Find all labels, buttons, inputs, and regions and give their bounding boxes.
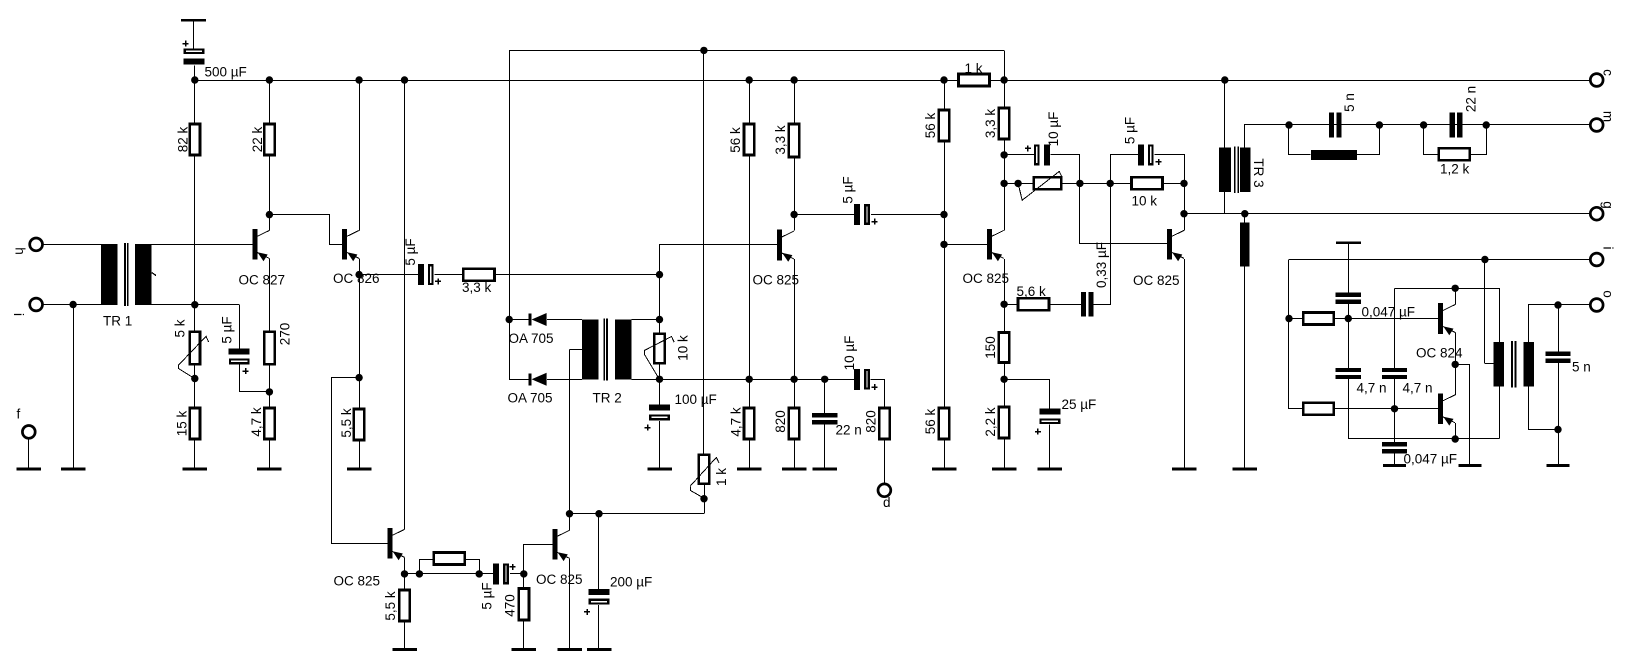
wire coupling down to 4,7n (crosses base wire) bbox=[1394, 288, 1396, 368]
wire secondary bottom bbox=[1529, 387, 1559, 430]
junction secondary top / 10k pot bbox=[656, 316, 663, 323]
ground under 25 uF bbox=[1038, 468, 1063, 471]
svg-text:0,047 µF: 0,047 µF bbox=[1362, 305, 1416, 320]
capacitor 22 n filter bbox=[1450, 113, 1463, 138]
wire 4,7k to ground bbox=[269, 439, 271, 468]
junction stage3 out bbox=[1076, 180, 1083, 187]
junction bus / OC825 emitter / 820 bbox=[790, 376, 797, 383]
svg-text:15 k: 15 k bbox=[175, 410, 190, 436]
wire 10k to collector column bbox=[1163, 183, 1185, 185]
wire 5,5k to ground bbox=[359, 440, 361, 468]
potentiometer feedback body bbox=[1034, 177, 1062, 189]
wire collector to 5uF bbox=[794, 214, 854, 216]
wire left column to lower resistor bbox=[1289, 408, 1303, 410]
resistor 82 k bbox=[190, 124, 200, 155]
junction left column / upper resistor bbox=[1285, 315, 1292, 322]
wire tap to extension winding bbox=[1244, 214, 1246, 223]
wire bottom OC825 collector to rail bbox=[404, 80, 406, 529]
wire to filter inductor bbox=[1289, 125, 1311, 155]
svg-text:d: d bbox=[883, 495, 891, 510]
junction rail / 22k bbox=[266, 76, 273, 83]
resistor 15 k bbox=[190, 408, 200, 439]
svg-text:4,7 n: 4,7 n bbox=[1357, 381, 1387, 396]
junction filter 4 bbox=[1483, 121, 1490, 128]
junction driver node bbox=[656, 271, 663, 278]
wire 3,3k to driver node bbox=[495, 274, 660, 276]
resistor 56 k first bbox=[744, 124, 754, 155]
wire to 5,5k bbox=[359, 378, 361, 409]
svg-text:820: 820 bbox=[773, 410, 788, 433]
svg-text:OC 827: OC 827 bbox=[239, 273, 286, 288]
wire terminal i line bbox=[1289, 259, 1590, 261]
wire 10k wiper to bottom bbox=[645, 351, 660, 380]
chassis bar at 500 uF bbox=[181, 19, 206, 22]
potentiometer 1 k wiper bbox=[690, 457, 719, 486]
svg-text:1 k: 1 k bbox=[965, 61, 983, 76]
ground under 4,7 k driver bbox=[737, 468, 762, 471]
junction collector / feedback line bbox=[566, 510, 573, 517]
wire collector column bbox=[1184, 183, 1186, 230]
ground under TR3 bbox=[1233, 468, 1258, 471]
svg-text:200 µF: 200 µF bbox=[610, 575, 652, 590]
resistor 56 k third bbox=[939, 408, 949, 439]
svg-text:5,5 k: 5,5 k bbox=[383, 591, 398, 621]
wire 0,33uF to node2 bbox=[1094, 184, 1111, 305]
resistor 470 bbox=[519, 589, 529, 621]
wire 5k wiper to bottom node bbox=[179, 365, 195, 379]
ground under 100 uF bbox=[647, 468, 672, 471]
capacitor 5 uF electrolytic fourth bbox=[1138, 144, 1153, 165]
svg-text:0,33 µF: 0,33 µF bbox=[1094, 242, 1109, 288]
ground under 5,5 k bbox=[347, 468, 372, 471]
terminal i bbox=[1590, 253, 1603, 266]
wire emitter column bbox=[359, 275, 361, 378]
wire to 5,5k bottom bbox=[404, 574, 406, 590]
wire chassis to C 500uF bbox=[193, 22, 195, 50]
wire node to 15k bbox=[194, 379, 196, 409]
wire collector node to OC826 base bbox=[270, 215, 343, 245]
svg-text:82 k: 82 k bbox=[176, 126, 191, 152]
wire node A down to 4,7n bbox=[1348, 319, 1350, 369]
junction upper collector bbox=[1452, 285, 1459, 292]
junction collector / 10uF bbox=[1000, 151, 1007, 158]
resistor bypass unlabeled bbox=[434, 553, 465, 565]
svg-text:c: c bbox=[1601, 69, 1616, 76]
ground under 2,2 k bbox=[992, 468, 1017, 471]
wire OC826 emitter down bbox=[359, 258, 361, 274]
transistor OC 824 upper bbox=[1438, 303, 1455, 335]
wire OC825 emitter down bbox=[1004, 259, 1006, 304]
junction OC827 collector / 22k bbox=[266, 211, 273, 218]
wire node A to upper OC824 base bbox=[1348, 318, 1438, 320]
capacitor 0,047 uF lower bbox=[1382, 442, 1407, 453]
wire OC826 collector to rail bbox=[359, 80, 361, 230]
wire OC825 fourth emitter to ground bbox=[1184, 259, 1186, 468]
wire secondary top to o line bbox=[1529, 305, 1559, 343]
svg-text:5 k: 5 k bbox=[173, 319, 188, 337]
junction TR3 tap bbox=[1241, 210, 1248, 217]
wire left column to upper resistor bbox=[1289, 318, 1303, 320]
capacitor 4,7 n right bbox=[1382, 368, 1407, 379]
junction bypass left bbox=[416, 570, 423, 577]
wire rail to TR3 primary bbox=[1224, 80, 1226, 148]
wire rail to 82k bbox=[194, 80, 196, 124]
wire node to ground bbox=[1558, 430, 1560, 465]
svg-text:TR 1: TR 1 bbox=[103, 314, 132, 329]
capacitor 5 uF electrolytic bottom bbox=[493, 563, 508, 584]
junction diode column / upper diode bbox=[506, 316, 513, 323]
junction rail / 3,3k bbox=[790, 76, 797, 83]
wire emitter bus bbox=[660, 379, 855, 381]
wire 5,6k to 0,33uF bbox=[1049, 304, 1081, 306]
svg-text:56 k: 56 k bbox=[923, 408, 938, 434]
resistor oscillator lower bbox=[1303, 403, 1334, 415]
terminal m bbox=[1590, 119, 1603, 132]
wire pot to node bbox=[194, 364, 196, 378]
wire 200uF to ground bbox=[598, 605, 600, 648]
wire 3,3k to collector bbox=[1004, 139, 1006, 230]
svg-text:i: i bbox=[11, 313, 26, 316]
wire 56k to divider node bbox=[944, 141, 946, 215]
resistor 820 right bbox=[879, 408, 889, 439]
svg-text:3,3 k: 3,3 k bbox=[983, 109, 998, 139]
junction pot wiper bbox=[1014, 180, 1021, 187]
ground under 820 left bbox=[782, 468, 807, 471]
wire 10uF to node bbox=[1051, 155, 1080, 184]
capacitor 200 uF electrolytic bbox=[589, 589, 610, 604]
wire upper collector up bbox=[1455, 288, 1457, 304]
svg-text:0,047 µF: 0,047 µF bbox=[1404, 452, 1458, 467]
resistor 10 k fourth bbox=[1132, 177, 1163, 189]
svg-text:5 µF: 5 µF bbox=[403, 238, 418, 265]
wire upper emitter down bbox=[1455, 333, 1457, 365]
svg-text:5 µF: 5 µF bbox=[480, 582, 495, 609]
wire upper collector to primary top bbox=[1456, 289, 1500, 343]
junction 1k pot bottom bbox=[700, 495, 707, 502]
transformer oscillator output bbox=[1494, 341, 1535, 387]
wire diode column bbox=[509, 50, 511, 379]
wire 820 to ground bbox=[794, 439, 796, 468]
junction rail / 500uF bbox=[191, 76, 198, 83]
junction rail / 56k second bbox=[940, 76, 947, 83]
wire filter line to terminal m bbox=[1289, 124, 1590, 126]
capacitor 5 uF electrolytic left bbox=[229, 349, 250, 364]
wire 25uF to ground bbox=[1049, 425, 1051, 468]
svg-text:25 µF: 25 µF bbox=[1062, 397, 1097, 412]
wire 5uF to 3,3k bbox=[435, 274, 464, 276]
wire 4,7n to lower base node bbox=[1394, 379, 1396, 409]
wire to 200uF bbox=[598, 514, 600, 589]
wire 5,5k to ground bbox=[404, 621, 406, 648]
wire to OC825 base bbox=[944, 244, 987, 246]
ground under i wire bbox=[61, 468, 86, 471]
svg-text:o: o bbox=[1601, 290, 1616, 298]
wire pot column vertical bbox=[703, 50, 705, 454]
ground under 5n bbox=[1547, 464, 1570, 467]
wire 4,7n to bottom rail bbox=[1348, 379, 1350, 439]
resistor 3,3 k driver bbox=[789, 124, 799, 157]
svg-text:m: m bbox=[1601, 111, 1616, 122]
wire 56k to ground bbox=[944, 439, 946, 468]
resistor 5,5 k bottom bbox=[399, 590, 409, 621]
junction bus / 22n bbox=[821, 376, 828, 383]
junction emitter / 5,5k / branch bbox=[355, 374, 362, 381]
wire cross coupling upper bbox=[1395, 288, 1456, 290]
svg-text:OC 825: OC 825 bbox=[334, 574, 381, 589]
terminal o bbox=[1590, 299, 1603, 312]
wire f to ground bbox=[28, 438, 30, 468]
wire TR2 center tap bbox=[570, 349, 583, 351]
junction lower emitter / rail bbox=[1452, 435, 1459, 442]
svg-text:OC 825: OC 825 bbox=[1133, 273, 1180, 288]
wire OC827 collector up bbox=[269, 215, 271, 231]
svg-text:22 n: 22 n bbox=[836, 423, 862, 438]
potentiometer 10 k body bbox=[654, 334, 664, 364]
wire to ground bbox=[73, 305, 75, 468]
junction base feed bbox=[940, 241, 947, 248]
capacitor 4,7 n left bbox=[1336, 368, 1361, 379]
potentiometer 10 k wiper bbox=[644, 337, 674, 351]
svg-text:500 µF: 500 µF bbox=[205, 65, 247, 80]
wire 22k to collector node bbox=[269, 155, 271, 215]
wire center tap bbox=[1485, 363, 1494, 365]
resistor 5,6 k bbox=[1018, 298, 1049, 310]
junction i wire / ground drop bbox=[69, 301, 76, 308]
wire to fourth base (crosses column) bbox=[1080, 243, 1167, 245]
wire 270 to node bbox=[269, 364, 271, 392]
wire 1,2k to line bbox=[1470, 125, 1487, 155]
capacitor 0,33 uF bbox=[1081, 292, 1094, 317]
wire 5uF to 56k node bbox=[871, 214, 944, 216]
transformer TR 1 bbox=[101, 243, 151, 306]
wire h to TR1 bbox=[43, 244, 101, 246]
wire output line to terminal g bbox=[1184, 213, 1590, 215]
wire feedback top loop bbox=[509, 50, 1004, 52]
wire rail to 22k bbox=[269, 80, 271, 124]
wire filter inductor to line bbox=[1357, 125, 1380, 155]
wire lower collector up bbox=[1455, 364, 1457, 394]
junction collector feedback bbox=[1180, 180, 1187, 187]
wire TR3 secondary top to filter bbox=[1245, 125, 1289, 148]
wire to terminal o bbox=[1558, 304, 1590, 306]
wire TR3 primary bottom to output line bbox=[1224, 192, 1226, 214]
wire down to 56k third bbox=[944, 244, 946, 408]
wire 5uF to collector column bbox=[1155, 155, 1185, 184]
wire 470 to ground bbox=[523, 620, 525, 648]
wire to 5uF top bbox=[195, 304, 239, 306]
wire to 100uF bbox=[659, 379, 661, 404]
wire 1k wiper to bottom node bbox=[691, 487, 705, 499]
wire 5uF bottom bbox=[239, 365, 241, 392]
transformer TR 2 bbox=[582, 319, 632, 381]
svg-text:820: 820 bbox=[864, 410, 879, 433]
junction rail / lower OC825 collector bbox=[401, 76, 408, 83]
wire rail node to 3,3k bbox=[1004, 80, 1006, 108]
wire C 500uF to rail bbox=[194, 66, 196, 81]
wire node down to OC825 fourth base bbox=[1079, 183, 1081, 244]
svg-text:5,6 k: 5,6 k bbox=[1017, 284, 1047, 299]
capacitor 5 uF electrolytic interstage bbox=[854, 204, 869, 225]
svg-text:4,7 n: 4,7 n bbox=[1403, 381, 1433, 396]
wire OC827 emitter to 270 bbox=[269, 258, 271, 331]
wire to upper diode bbox=[509, 319, 528, 321]
junction node2 bbox=[1107, 180, 1114, 187]
wire 56k down (crosses base wire) bbox=[749, 155, 751, 379]
svg-text:OA 705: OA 705 bbox=[509, 331, 554, 346]
resistor 1,2 k bbox=[1439, 148, 1470, 160]
svg-text:f: f bbox=[17, 407, 21, 422]
junction filter 1 bbox=[1285, 121, 1292, 128]
junction rail / 1k output node bbox=[1000, 76, 1007, 83]
transistor OC 825 bottom right bbox=[553, 529, 570, 561]
wire TR1 bottom to divider bbox=[151, 304, 194, 306]
svg-text:1,2 k: 1,2 k bbox=[1440, 162, 1470, 177]
resistor 820 left bbox=[789, 408, 799, 439]
junction top loop / pot column bbox=[700, 47, 707, 54]
inductor filter choke bbox=[1311, 150, 1357, 160]
junction filter 3 bbox=[1420, 121, 1427, 128]
wire divider node down bbox=[944, 215, 946, 245]
wire driver node down to pot bbox=[659, 275, 661, 320]
wire upper diode to TR2 bbox=[547, 319, 582, 321]
wire 22n to ground bbox=[824, 425, 826, 468]
wire 2,2k to ground bbox=[1004, 438, 1006, 468]
wire emitter to 150 bbox=[1004, 304, 1006, 332]
svg-text:4,7 k: 4,7 k bbox=[249, 407, 264, 437]
junction emitter / coupling bbox=[355, 271, 362, 278]
wire 100uF to ground bbox=[659, 421, 661, 468]
svg-text:56 k: 56 k bbox=[923, 112, 938, 138]
wire collector to pot bbox=[1004, 183, 1034, 185]
potentiometer feedback wiper bbox=[1018, 171, 1062, 200]
svg-text:5 n: 5 n bbox=[1342, 93, 1357, 112]
svg-text:10 µF: 10 µF bbox=[1046, 112, 1061, 147]
wire to bypass resistor bbox=[420, 560, 434, 574]
wire center tap down to output stage bbox=[569, 350, 571, 514]
wire 82k down to pot (crosses base wire) bbox=[194, 155, 196, 332]
capacitor 10 uF electrolytic feedback bbox=[1035, 144, 1050, 165]
wire o line to 5n bbox=[1558, 305, 1560, 352]
svg-text:5 µF: 5 µF bbox=[1123, 117, 1138, 144]
svg-text:i: i bbox=[1601, 247, 1616, 250]
ground under 5,5 k bottom bbox=[392, 648, 417, 651]
resistor 5,5 k bbox=[354, 409, 364, 440]
wire to 470 bbox=[523, 574, 525, 589]
wire lower emitter to rail bbox=[1455, 423, 1457, 439]
wire top loop to rail node bbox=[1004, 50, 1006, 80]
wire collector up bbox=[569, 514, 571, 531]
junction lower base node bbox=[1391, 405, 1398, 412]
wire down to 25uF bbox=[1049, 379, 1051, 408]
junction secondary bottom / pot bottom bbox=[656, 376, 663, 383]
terminal c bbox=[1590, 74, 1603, 87]
svg-text:OC 825: OC 825 bbox=[536, 572, 583, 587]
wire 150 to 2,2k bbox=[1004, 363, 1006, 408]
wire node to 4,7k bbox=[269, 392, 271, 408]
junction collector / pot bbox=[1000, 180, 1007, 187]
capacitor 500 uF electrolytic bbox=[184, 50, 205, 65]
inductor TR3 extension winding bbox=[1240, 222, 1250, 266]
terminal h bbox=[30, 238, 43, 251]
wire feedback line bbox=[570, 513, 705, 515]
junction i line / output transformer tap bbox=[1481, 256, 1488, 263]
svg-text:470: 470 bbox=[503, 594, 518, 617]
svg-text:h: h bbox=[13, 247, 28, 255]
ground under 200 uF bbox=[587, 648, 612, 651]
wire bus to 820 bbox=[794, 379, 796, 408]
resistor 3,3 k third bbox=[999, 108, 1009, 139]
capacitor 10 uF electrolytic to d bbox=[854, 369, 869, 390]
junction divider / TR1 bottom bbox=[191, 301, 198, 308]
wire 0,047uF to node A bbox=[1348, 304, 1350, 319]
svg-text:2,2 k: 2,2 k bbox=[983, 407, 998, 437]
svg-text:150: 150 bbox=[983, 336, 998, 359]
wire 5uF to base node bbox=[510, 573, 524, 575]
wire bus to 4,7k bbox=[749, 379, 751, 408]
wire TR2 secondary top bbox=[632, 319, 660, 321]
wire oscillator left column bbox=[1288, 260, 1290, 409]
ground under 0,047 uF bbox=[1383, 464, 1406, 467]
diode OA 705 lower bbox=[528, 373, 546, 386]
svg-text:270: 270 bbox=[278, 323, 293, 346]
svg-text:1 k: 1 k bbox=[714, 468, 729, 486]
wire TR1 to OC827 base bbox=[151, 244, 252, 246]
svg-text:22 n: 22 n bbox=[1464, 86, 1479, 112]
resistor 150 bbox=[999, 333, 1009, 363]
svg-text:10 k: 10 k bbox=[676, 335, 691, 361]
wire pot bottom bbox=[659, 363, 661, 379]
resistor 270 bbox=[264, 332, 274, 365]
resistor 3,3 k coupling bbox=[463, 269, 494, 281]
wire 3,3k to collector bbox=[794, 157, 796, 230]
transistor OC 825 third bbox=[987, 229, 1004, 261]
capacitor 25 uF electrolytic bbox=[1039, 409, 1060, 424]
capacitor 5 n output bbox=[1545, 352, 1570, 363]
junction 5k / 15k bbox=[191, 375, 198, 382]
wire i line down to center tap bbox=[1484, 260, 1486, 364]
junction o line / 5n bbox=[1554, 301, 1561, 308]
capacitor 100 uF electrolytic bbox=[649, 405, 670, 420]
transistor OC 825 fourth bbox=[1167, 229, 1184, 261]
capacitor 5 n filter bbox=[1329, 113, 1342, 138]
potentiometer 5 k wiper bbox=[179, 336, 209, 364]
svg-text:OA 705: OA 705 bbox=[508, 391, 553, 406]
svg-text:100 µF: 100 µF bbox=[675, 392, 717, 407]
wire emitter down bbox=[404, 557, 406, 574]
transistor OC 827 bbox=[252, 229, 269, 261]
resistor 1 k in rail bbox=[959, 74, 990, 86]
terminal f bbox=[22, 426, 35, 439]
junction emitter / 5,6k bbox=[1000, 301, 1007, 308]
wire +supply rail left part bbox=[195, 80, 959, 82]
wire lower resistor to node bbox=[1334, 408, 1395, 410]
wire 4,7k to ground bbox=[749, 439, 751, 468]
wire emitter to ground bbox=[569, 558, 571, 648]
capacitor 5 uF electrolytic coupling bbox=[418, 264, 433, 285]
ground under 15 k bbox=[183, 468, 208, 471]
svg-text:5 µF: 5 µF bbox=[220, 316, 235, 343]
wire 5uF to emitter node bbox=[239, 391, 269, 393]
terminal d bbox=[878, 484, 891, 497]
junction 150 / 25uF bbox=[1000, 376, 1007, 383]
wire branch to lower OC825 base bbox=[332, 378, 388, 544]
resistor 2,2 k bbox=[999, 407, 1009, 438]
junction rail / OC826 collector bbox=[355, 76, 362, 83]
junction base node / 470 bbox=[520, 570, 527, 577]
resistor oscillator upper bbox=[1303, 313, 1334, 325]
wire 820 to terminal d bbox=[884, 439, 886, 484]
wire OC825 emitter to bus bbox=[794, 259, 796, 379]
